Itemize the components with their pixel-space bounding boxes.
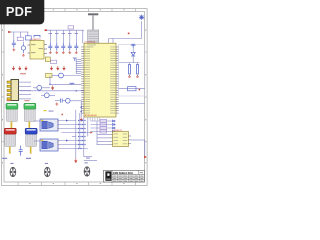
crystal Y1 body	[46, 74, 53, 78]
jumper	[82, 136, 86, 137]
power arrow	[25, 66, 27, 70]
power arrow	[80, 117, 82, 121]
resistor R1	[129, 65, 131, 75]
label text	[20, 72, 26, 75]
connector J1 pads	[7, 81, 11, 100]
net label box	[100, 130, 107, 133]
wire	[58, 144, 84, 146]
jumper	[78, 124, 82, 125]
ic U3 body	[113, 132, 129, 147]
label text	[26, 158, 31, 159]
svg-text:GSM SHIELD SCH: GSM SHIELD SCH	[113, 173, 133, 175]
wire	[109, 38, 142, 40]
net label box	[25, 36, 31, 40]
capacitor C6	[61, 43, 65, 51]
U3 pin	[110, 134, 113, 136]
wire comb to mcu	[76, 60, 81, 74]
wire	[132, 56, 134, 63]
wire	[91, 127, 117, 129]
wire bus	[79, 113, 81, 149]
net label box	[17, 37, 23, 40]
title block logo	[105, 171, 111, 180]
relay K2 image	[24, 107, 35, 122]
wire	[75, 30, 77, 43]
wire	[144, 140, 146, 156]
label text	[44, 110, 47, 111]
lead	[29, 122, 31, 130]
U1 pin 4	[44, 48, 47, 50]
wire	[42, 87, 50, 89]
wire	[97, 137, 110, 139]
svg-text:U1 AMS1117: U1 AMS1117	[31, 38, 42, 41]
label text	[2, 158, 7, 159]
ic U3 pin text	[113, 134, 127, 145]
svg-text:ATMEGA2560: ATMEGA2560	[85, 114, 97, 117]
capacitor C5	[55, 43, 59, 51]
capacitor C3	[34, 36, 40, 38]
net flag VIN	[8, 31, 10, 33]
jumper	[78, 128, 82, 129]
transistor Q1	[37, 85, 42, 90]
transistor Q2	[44, 93, 49, 98]
wire bus	[96, 122, 98, 146]
jumper	[78, 120, 82, 121]
net flag 3V3	[45, 29, 47, 31]
lead	[11, 122, 13, 130]
wire	[72, 136, 76, 138]
relay K1 image	[6, 107, 17, 122]
U3 pin	[110, 144, 113, 146]
wire	[55, 100, 60, 102]
net label box	[100, 120, 107, 123]
wire	[119, 88, 145, 90]
wire	[27, 32, 29, 36]
power port VCC	[131, 44, 136, 48]
capacitor C9	[61, 98, 63, 102]
connector J2 body	[88, 30, 99, 43]
diode glyph	[66, 119, 68, 121]
off-sheet flag	[144, 156, 147, 159]
wire top bus	[47, 29, 84, 31]
ground	[62, 51, 65, 54]
wire	[10, 31, 28, 33]
region outline	[119, 45, 145, 97]
diode glyph	[66, 139, 68, 141]
wire	[34, 120, 40, 122]
label C5	[55, 32, 59, 35]
no-erc mark	[62, 114, 63, 115]
wire	[58, 128, 84, 130]
wire	[58, 140, 80, 142]
wire	[63, 75, 81, 77]
label C7	[68, 32, 72, 35]
buzzer LS1 block	[40, 119, 58, 131]
label text	[86, 157, 90, 160]
label text	[49, 110, 54, 113]
wire	[108, 39, 110, 44]
buzzer LS2 block	[40, 139, 58, 151]
U3 pin	[110, 140, 113, 142]
wire	[49, 30, 51, 43]
wire	[70, 100, 81, 102]
wire	[62, 30, 64, 43]
capacitor C8	[74, 43, 78, 51]
wire	[50, 83, 81, 85]
U3 pin	[128, 135, 131, 137]
wire	[49, 76, 51, 85]
net label box	[100, 123, 107, 126]
lead	[30, 147, 32, 154]
wire	[63, 100, 66, 102]
inductor L1	[70, 83, 75, 84]
label C4	[49, 32, 53, 35]
jumper	[78, 136, 82, 137]
wire	[116, 103, 145, 105]
capacitor C4	[48, 43, 52, 51]
wire long	[20, 90, 84, 92]
U3 pin	[128, 139, 131, 141]
wire	[58, 120, 76, 122]
wire	[49, 94, 55, 96]
jumper	[82, 132, 86, 133]
jumper	[78, 140, 82, 141]
ground	[68, 51, 71, 54]
wire	[84, 156, 92, 158]
power arrow	[63, 66, 65, 70]
wire	[82, 30, 84, 43]
mounting hole MH2	[44, 167, 50, 176]
label MH2	[45, 163, 48, 164]
wire	[132, 48, 134, 52]
capacitor C10	[19, 146, 23, 156]
diode glyph	[112, 127, 114, 129]
mounting hole MH1	[10, 167, 16, 176]
ground	[12, 48, 15, 51]
wire bus	[75, 110, 77, 159]
power port +5V	[73, 58, 77, 61]
capacitor C7	[68, 43, 72, 51]
wire	[56, 30, 58, 43]
ground	[22, 54, 25, 57]
sheet background	[0, 0, 149, 198]
U3 pin	[128, 143, 131, 145]
U1 pin 3	[44, 44, 47, 46]
wire	[34, 140, 40, 142]
title block cell text	[113, 176, 143, 182]
diode glyph	[112, 130, 114, 132]
wire	[119, 62, 140, 64]
power arrow	[75, 159, 77, 163]
wire	[91, 131, 117, 133]
junction	[75, 90, 77, 92]
wire	[19, 82, 32, 99]
transistor Q3	[66, 99, 71, 104]
wire	[137, 63, 139, 65]
no-erc mark	[128, 33, 130, 35]
wire antenna stem	[141, 21, 143, 38]
wire	[97, 144, 110, 146]
regulator U1 body	[30, 41, 44, 60]
wire	[22, 42, 24, 45]
mcu U2 pins	[81, 47, 119, 113]
ground	[128, 75, 131, 78]
relay K3 image	[5, 132, 16, 147]
resonator circle	[59, 73, 64, 78]
power arrow	[12, 66, 14, 70]
ground	[55, 51, 58, 54]
connector J2 mast	[92, 15, 94, 30]
wire	[129, 63, 131, 65]
wire	[69, 30, 71, 43]
junction	[80, 106, 82, 108]
wire	[13, 32, 15, 40]
wire	[58, 124, 80, 126]
ground	[55, 103, 58, 106]
wire	[58, 148, 88, 150]
jumper	[78, 132, 82, 133]
wire	[33, 87, 37, 89]
ground	[136, 75, 139, 78]
wire bus	[87, 117, 89, 137]
title doc cell text	[140, 171, 143, 174]
mcu U2 pin names	[85, 47, 116, 114]
jumper	[82, 140, 86, 141]
no-erc mark	[139, 89, 141, 91]
pdf badge	[0, 0, 44, 24]
crystal Y2	[128, 87, 137, 91]
label text	[7, 100, 12, 101]
net label box	[100, 127, 107, 130]
wire	[62, 132, 91, 134]
label C8	[75, 32, 79, 35]
off-sheet flag	[90, 131, 92, 133]
jumper	[78, 148, 82, 149]
ground	[49, 51, 52, 54]
wire	[80, 101, 82, 117]
capacitor C1	[12, 40, 16, 48]
label MH3	[85, 162, 88, 163]
opto U4 body	[45, 57, 50, 62]
frame zone labels	[2, 9, 146, 184]
mcu U2 body	[84, 43, 116, 117]
power arrow	[19, 66, 21, 70]
led D1	[131, 52, 135, 56]
lead	[9, 147, 11, 154]
svg-text:PDF: PDF	[6, 4, 32, 19]
label C6	[62, 32, 66, 35]
connector J1 body	[11, 80, 19, 101]
diode glyph	[112, 123, 114, 125]
wire ribbon	[88, 117, 100, 121]
U1 pin 1	[28, 44, 31, 46]
mcu U2 inner text	[87, 45, 96, 48]
connector J2 top bar	[88, 13, 98, 15]
wire	[91, 120, 117, 122]
wire	[41, 94, 44, 96]
wire	[52, 75, 59, 77]
jumper	[82, 120, 86, 121]
diode glyph	[112, 120, 114, 122]
wire bus vertical	[75, 60, 77, 74]
mounting hole MH3	[84, 167, 90, 176]
wire	[131, 139, 145, 141]
U1 pin 2	[28, 52, 31, 54]
ground	[75, 51, 78, 54]
sheet frame outer	[1, 9, 147, 186]
jumper	[82, 128, 86, 129]
power arrow	[52, 86, 54, 90]
frame zone ticks	[1, 9, 147, 186]
U1 pin 5	[44, 53, 47, 55]
svg-text:U2 ATMEGA: U2 ATMEGA	[85, 40, 96, 43]
power arrow	[57, 66, 59, 70]
relay K4 image	[26, 132, 37, 147]
capacitor C2	[21, 46, 25, 50]
wire	[84, 160, 97, 162]
jumper	[82, 124, 86, 125]
net label box	[68, 26, 74, 29]
wire	[97, 140, 110, 142]
junction	[49, 84, 51, 86]
U3 pin	[110, 137, 113, 139]
wire	[91, 124, 117, 126]
U1 inner text	[31, 44, 43, 53]
wire	[97, 134, 110, 136]
wire	[19, 32, 21, 37]
title block table	[104, 170, 145, 182]
power arrow	[50, 66, 52, 70]
junction	[80, 111, 82, 113]
label text	[25, 100, 30, 101]
svg-text:U3 MAX232: U3 MAX232	[113, 129, 123, 132]
wire	[112, 39, 114, 44]
sheet frame inner	[4, 12, 145, 183]
wire bus	[83, 117, 85, 157]
net label box	[51, 60, 57, 63]
label MH1	[10, 163, 13, 164]
jumper	[78, 144, 82, 145]
resistor R2	[137, 65, 139, 75]
jumper	[82, 144, 86, 145]
antenna E1	[139, 15, 144, 20]
